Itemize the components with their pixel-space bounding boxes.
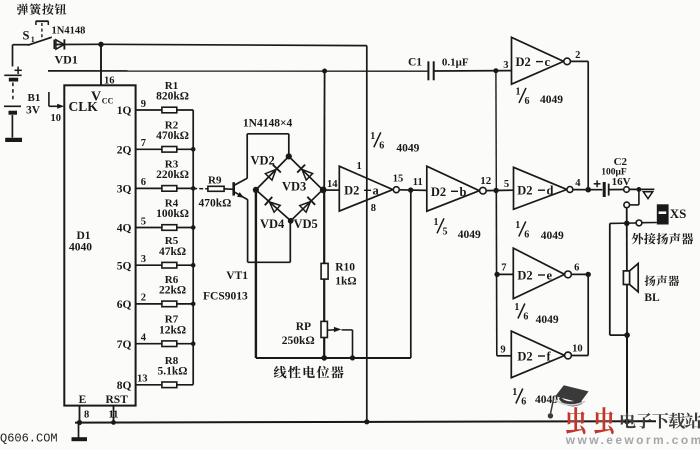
node RP bottom bbox=[321, 355, 327, 361]
svg-text:3: 3 bbox=[141, 254, 146, 265]
svg-text:10: 10 bbox=[572, 343, 583, 354]
svg-text:12: 12 bbox=[480, 175, 492, 187]
diode VD4 bbox=[269, 202, 280, 212]
wire resistor to bus bbox=[177, 303, 193, 305]
wire D2-b out to D2-d bbox=[486, 189, 513, 191]
svg-text:D2: D2 bbox=[431, 185, 446, 199]
wire C1 to D2-c input bbox=[434, 70, 512, 72]
capacitor C2 100uF 16V bbox=[594, 156, 631, 197]
svg-text:820kΩ: 820kΩ bbox=[156, 91, 189, 103]
svg-text:1N4148×4: 1N4148×4 bbox=[243, 118, 293, 130]
resistor R6 22kΩ bbox=[159, 274, 186, 307]
diode VD2 bbox=[265, 169, 276, 180]
wire pin 7 row bbox=[136, 148, 162, 150]
wire pin 8 (E) bbox=[79, 406, 81, 423]
svg-text:13: 13 bbox=[137, 374, 148, 385]
svg-text:VD5: VD5 bbox=[294, 217, 318, 231]
svg-text:4049: 4049 bbox=[458, 229, 481, 241]
svg-text:3Q: 3Q bbox=[117, 184, 132, 196]
svg-text:BL: BL bbox=[644, 292, 660, 304]
svg-text:VT1: VT1 bbox=[226, 270, 248, 282]
svg-text:4049: 4049 bbox=[396, 142, 419, 154]
wire input bus (pins 3,5,7,9) bbox=[495, 71, 497, 191]
svg-text:Q606.COM: Q606.COM bbox=[0, 431, 58, 445]
svg-text:D2: D2 bbox=[344, 184, 359, 198]
wire upper distribution rail bbox=[48, 70, 427, 72]
wire resistor to bus bbox=[177, 187, 193, 189]
wire bus to R9 bbox=[193, 188, 208, 190]
svg-text:47kΩ: 47kΩ bbox=[159, 246, 186, 258]
svg-text:a: a bbox=[373, 184, 380, 198]
resistor R7 12kΩ bbox=[159, 314, 186, 347]
svg-text:9: 9 bbox=[141, 99, 146, 110]
resistor R9 470k bbox=[199, 175, 232, 210]
resistor R8 5.1kΩ bbox=[158, 355, 188, 388]
svg-text:15: 15 bbox=[393, 174, 404, 185]
wire speaker to rail bbox=[626, 285, 628, 336]
wire D2-e out bbox=[571, 273, 588, 275]
wire pin 6 row bbox=[136, 187, 162, 189]
op-amp inverter U D2-f bbox=[511, 331, 582, 378]
switch S1 (pushbutton) bbox=[23, 21, 55, 49]
resistor R2 470kΩ bbox=[156, 119, 189, 152]
svg-text:6: 6 bbox=[574, 262, 579, 273]
potentiometer RP 250k bbox=[282, 321, 353, 358]
wire feedback box right side bbox=[410, 190, 412, 358]
jack sleeve branch bbox=[626, 208, 628, 271]
ground symbol bbox=[78, 423, 80, 438]
resistor ladder bus bbox=[192, 110, 194, 385]
svg-text:470kΩ: 470kΩ bbox=[199, 198, 232, 210]
svg-text:FCS9013: FCS9013 bbox=[203, 290, 248, 302]
svg-text:4: 4 bbox=[575, 178, 581, 189]
wire pin 5 row bbox=[136, 227, 162, 229]
svg-text:6: 6 bbox=[379, 140, 384, 151]
svg-text:4049: 4049 bbox=[536, 314, 559, 326]
node: VCC junction bbox=[98, 42, 103, 47]
svg-text:VD4: VD4 bbox=[260, 217, 285, 231]
svg-text:S: S bbox=[23, 29, 30, 43]
wire D2-c out down to output node bbox=[570, 60, 588, 62]
wire to D2-f pin9 bbox=[497, 355, 512, 357]
svg-text:R9: R9 bbox=[208, 175, 222, 187]
label external speaker (Chinese) bbox=[632, 233, 644, 244]
svg-text:4: 4 bbox=[141, 333, 147, 344]
svg-text:D2: D2 bbox=[517, 184, 532, 198]
op-amp inverter U D2-a bbox=[339, 161, 403, 214]
svg-text:D2: D2 bbox=[516, 55, 531, 69]
wire pin 13 row bbox=[136, 384, 162, 386]
svg-text:4Q: 4Q bbox=[117, 223, 132, 235]
label linear potentiometer (Chinese) bbox=[274, 366, 287, 378]
wire battery+ to switch bbox=[13, 44, 29, 46]
svg-text:E: E bbox=[79, 394, 87, 406]
svg-text:D2: D2 bbox=[517, 268, 532, 282]
svg-text:100kΩ: 100kΩ bbox=[156, 208, 189, 220]
wire resistor to bus bbox=[177, 148, 193, 150]
svg-text:10: 10 bbox=[51, 113, 62, 124]
wire collector to bridge top bbox=[246, 134, 248, 179]
wire jack tip bbox=[629, 188, 654, 190]
svg-text:1Q: 1Q bbox=[117, 105, 132, 117]
bridge arm wires bbox=[256, 156, 289, 190]
wire feedback box bottom bbox=[256, 357, 411, 359]
svg-text:R10: R10 bbox=[335, 261, 355, 273]
svg-text:RST: RST bbox=[106, 394, 129, 406]
wire R9 to base bbox=[224, 188, 234, 191]
svg-text:220kΩ: 220kΩ bbox=[156, 169, 189, 181]
svg-text:5: 5 bbox=[443, 226, 448, 237]
wire D2-d out to C2 bbox=[573, 189, 602, 191]
svg-text:VD2: VD2 bbox=[251, 154, 275, 168]
wire to D2-e pin7 bbox=[494, 272, 499, 277]
op-amp inverter U D2-b bbox=[427, 166, 492, 211]
svg-text:c: c bbox=[545, 55, 551, 69]
svg-text:1: 1 bbox=[370, 131, 375, 142]
wire top rail to right bbox=[101, 44, 367, 45]
wire C2 to jack bbox=[609, 189, 624, 191]
svg-text:8: 8 bbox=[84, 410, 89, 421]
svg-text:B1: B1 bbox=[28, 92, 41, 104]
resistor R10 1k bbox=[321, 261, 356, 287]
transistor VT1 FCS9013 bbox=[203, 178, 248, 302]
svg-text:4049: 4049 bbox=[541, 230, 564, 242]
wire resistor to bus bbox=[177, 264, 193, 266]
svg-text:1: 1 bbox=[357, 161, 362, 172]
wire bridge left corner down bbox=[255, 190, 257, 358]
resistor R3 220kΩ bbox=[156, 158, 189, 191]
svg-text:e: e bbox=[547, 268, 553, 282]
wire to XS socket bbox=[610, 222, 636, 224]
wire vertical to bridge and R10 bbox=[323, 71, 325, 190]
svg-text:1kΩ: 1kΩ bbox=[335, 276, 356, 288]
svg-text:11: 11 bbox=[109, 410, 119, 421]
wire pin 9 row bbox=[136, 109, 162, 111]
wire bridge to D2-a pin14 bbox=[324, 189, 339, 191]
op-amp inverter U D2-c bbox=[512, 37, 581, 84]
svg-text:2: 2 bbox=[575, 50, 580, 61]
svg-text:9: 9 bbox=[500, 344, 505, 355]
bottom ground rail bbox=[75, 421, 656, 422]
svg-text:1: 1 bbox=[514, 302, 519, 313]
battery B1 3V bbox=[4, 45, 41, 140]
svg-text:CC: CC bbox=[102, 97, 114, 106]
resistor R4 100kΩ bbox=[156, 198, 189, 231]
svg-text:7: 7 bbox=[141, 138, 146, 149]
jack XS tip contact bbox=[624, 187, 630, 193]
svg-text:C2: C2 bbox=[614, 156, 628, 168]
svg-text:14: 14 bbox=[327, 179, 338, 190]
svg-text:6: 6 bbox=[521, 397, 526, 408]
IC U-D1 4040 binary counter bbox=[64, 85, 135, 405]
svg-text:1: 1 bbox=[434, 217, 439, 228]
jack switch contact bbox=[638, 189, 640, 205]
svg-text:6: 6 bbox=[523, 312, 528, 323]
svg-text:1: 1 bbox=[512, 387, 517, 398]
svg-text:5.1kΩ: 5.1kΩ bbox=[158, 365, 188, 377]
wire D2-f out bbox=[571, 355, 588, 357]
wire pin 2 row bbox=[136, 303, 162, 305]
svg-text:1N4148: 1N4148 bbox=[52, 26, 86, 37]
diode VD5 bbox=[300, 202, 311, 213]
svg-text:7Q: 7Q bbox=[117, 339, 132, 351]
svg-text:d: d bbox=[547, 184, 554, 198]
svg-text:6Q: 6Q bbox=[117, 299, 132, 311]
wire pin 11 (RST) bbox=[113, 406, 115, 423]
wire resistor to bus bbox=[177, 227, 193, 229]
speaker BL bbox=[623, 264, 638, 292]
label speaker (Chinese) bbox=[645, 275, 656, 286]
svg-text:0.1μF: 0.1μF bbox=[442, 57, 469, 69]
watermark chongchong red bbox=[566, 407, 585, 434]
watermark site name (Chinese) bbox=[621, 413, 636, 429]
svg-text:2Q: 2Q bbox=[117, 145, 132, 157]
wire pin 4 row bbox=[136, 343, 162, 345]
svg-text:C1: C1 bbox=[408, 57, 422, 69]
svg-text:VD3: VD3 bbox=[282, 180, 306, 194]
svg-text:6: 6 bbox=[141, 177, 146, 188]
svg-text:RP: RP bbox=[296, 321, 311, 333]
op-amp inverter U D2-e bbox=[513, 248, 579, 299]
svg-text:3V: 3V bbox=[26, 105, 41, 117]
svg-text:11: 11 bbox=[413, 177, 423, 188]
svg-text:4049: 4049 bbox=[540, 94, 563, 106]
wire right vertical VSS down bbox=[366, 46, 368, 422]
svg-text:7: 7 bbox=[501, 262, 506, 273]
wire pin 3 row bbox=[136, 264, 162, 266]
op-amp inverter U D2-d bbox=[514, 167, 582, 209]
svg-text:1: 1 bbox=[515, 220, 520, 231]
bridge corner nodes bbox=[286, 153, 292, 159]
jack plug arrow bbox=[643, 192, 652, 199]
wire pin 16 bbox=[100, 44, 102, 85]
svg-text:22kΩ: 22kΩ bbox=[159, 285, 186, 297]
wire left speaker branch bbox=[609, 223, 611, 335]
diode VD3 bbox=[302, 169, 313, 180]
svg-text:8Q: 8Q bbox=[117, 380, 132, 392]
resistor R5 47kΩ bbox=[159, 235, 186, 268]
svg-text:2: 2 bbox=[141, 293, 146, 304]
svg-text:16: 16 bbox=[104, 76, 115, 87]
svg-text:6: 6 bbox=[524, 229, 529, 240]
svg-text:8: 8 bbox=[371, 203, 376, 214]
resistor R1 820kΩ bbox=[156, 80, 189, 113]
svg-text:12kΩ: 12kΩ bbox=[159, 324, 186, 336]
svg-text:5Q: 5Q bbox=[117, 260, 132, 272]
diode VD1 1N4148 bbox=[52, 26, 102, 67]
watermark logo cap bbox=[548, 385, 589, 418]
svg-text:D2: D2 bbox=[517, 349, 532, 363]
svg-text:5: 5 bbox=[504, 179, 509, 190]
svg-text:16V: 16V bbox=[612, 176, 631, 188]
svg-text:www.eeworm.com: www.eeworm.com bbox=[565, 433, 700, 445]
label: spring pushbutton (Chinese) bbox=[17, 4, 28, 15]
wire D2-a out to D2-b bbox=[399, 189, 427, 192]
svg-text:D1: D1 bbox=[77, 230, 91, 242]
svg-text:4040: 4040 bbox=[69, 241, 92, 253]
svg-text:CLK: CLK bbox=[69, 99, 99, 114]
wire resistor to bus bbox=[177, 384, 193, 386]
svg-text:5: 5 bbox=[141, 216, 146, 227]
svg-text:XS: XS bbox=[670, 206, 687, 221]
capacitor C1 0.1uF bbox=[408, 57, 469, 81]
svg-text:470kΩ: 470kΩ bbox=[156, 130, 189, 142]
svg-text:VD1: VD1 bbox=[55, 53, 78, 67]
wire resistor to bus bbox=[177, 109, 193, 111]
svg-text:6: 6 bbox=[525, 96, 530, 107]
clock input stub pin10 bbox=[48, 92, 50, 106]
XS socket body bbox=[657, 204, 669, 224]
svg-text:250kΩ: 250kΩ bbox=[282, 335, 315, 347]
wire emitter loop to bridge bottom bbox=[247, 199, 249, 262]
wire resistor to bus bbox=[177, 343, 193, 345]
svg-text:3: 3 bbox=[503, 60, 508, 71]
svg-text:1: 1 bbox=[516, 86, 521, 97]
svg-text:b: b bbox=[460, 185, 467, 199]
